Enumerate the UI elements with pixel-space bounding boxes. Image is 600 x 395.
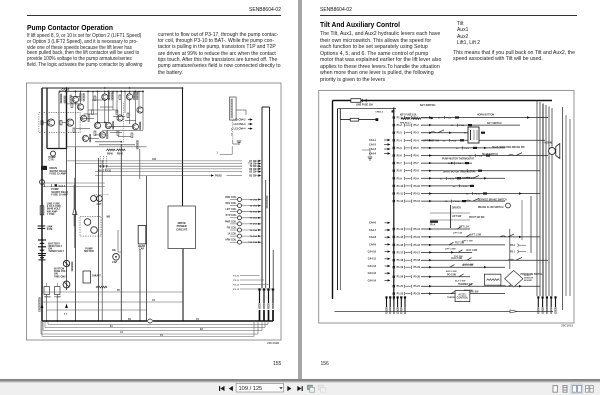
- svg-text:P1-11: P1-11: [397, 193, 404, 196]
- svg-text:LIFT COIL: LIFT COIL: [225, 209, 237, 211]
- svg-text:OIL: OIL: [112, 249, 117, 252]
- svg-text:LIFT LS4: LIFT LS4: [453, 232, 463, 235]
- svg-text:T3 CN4: T3 CN4: [249, 198, 257, 201]
- svg-text:K7 CN4: K7 CN4: [249, 160, 258, 163]
- svg-text:BOARD: BOARD: [524, 279, 532, 282]
- svg-text:P5-8: P5-8: [414, 170, 420, 173]
- svg-text:P5-2: P5-2: [414, 124, 420, 127]
- svg-text:T9 CN4: T9 CN4: [250, 165, 259, 168]
- svg-text:P5-4: P5-4: [460, 124, 465, 127]
- svg-text:T7 CN4: T7 CN4: [249, 223, 257, 226]
- svg-text:P5-22: P5-22: [414, 293, 421, 296]
- svg-text:T16 CN4: T16 CN4: [248, 163, 258, 166]
- svg-text:P1-21: P1-21: [397, 285, 404, 288]
- svg-text:PWR COIL: PWR COIL: [225, 221, 237, 223]
- svg-text:L13 CN4-4: L13 CN4-4: [234, 128, 247, 131]
- svg-text:P1-20: P1-20: [397, 276, 404, 279]
- svg-text:SEAT OPERATED BRAKE SW: SEAT OPERATED BRAKE SW: [492, 146, 525, 149]
- svg-text:P5-13: P5-13: [475, 194, 482, 196]
- svg-text:CA4-6: CA4-6: [369, 222, 377, 225]
- svg-text:P1-3: P1-3: [397, 132, 403, 135]
- svg-text:TIME ONLY: TIME ONLY: [54, 275, 67, 278]
- svg-text:P1-16: P1-16: [397, 244, 404, 247]
- svg-text:P1-8: P1-8: [397, 170, 403, 173]
- svg-text:P1-6: P1-6: [397, 155, 403, 158]
- svg-text:L13 CN4-3: L13 CN4-3: [234, 123, 247, 126]
- svg-text:P5-14: P5-14: [414, 228, 421, 231]
- svg-text:P5-7: P5-7: [465, 148, 470, 150]
- svg-text:P5-A: P5-A: [430, 224, 436, 227]
- svg-text:P5-10: P5-10: [414, 185, 421, 188]
- svg-text:PUMP MOTOR THERMOSTAT: PUMP MOTOR THERMOSTAT: [442, 157, 475, 160]
- svg-text:ALX 3 SW: ALX 3 SW: [455, 279, 466, 282]
- svg-text:ACCEL: ACCEL: [458, 293, 467, 296]
- svg-text:P1-18: P1-18: [397, 259, 404, 262]
- svg-text:1A COIL: 1A COIL: [227, 233, 237, 236]
- svg-text:B3 CN4: B3 CN4: [249, 174, 258, 177]
- svg-text:P1-2: P1-2: [397, 124, 403, 127]
- svg-text:LIFT LIMIT SW: LIFT LIMIT SW: [423, 141, 440, 143]
- svg-text:SERVICE BRAKE SWITCH: SERVICE BRAKE SWITCH: [478, 198, 507, 201]
- svg-text:THERMO SW: THERMO SW: [458, 284, 473, 286]
- svg-text:P1-12: P1-12: [397, 200, 404, 203]
- svg-text:CIRCUIT: CIRCUIT: [176, 227, 187, 231]
- svg-text:P1-9: P1-9: [397, 177, 403, 180]
- svg-text:20C1013: 20C1013: [561, 323, 573, 327]
- svg-text:TIANDI VOLT: TIANDI VOLT: [48, 249, 64, 253]
- svg-text:P5-18: P5-18: [414, 259, 421, 262]
- svg-text:HORN: HORN: [44, 297, 51, 299]
- svg-text:REV COIL: REV COIL: [226, 203, 238, 205]
- svg-text:DRIVE MOTOR THERMOSTAT: DRIVE MOTOR THERMOSTAT: [443, 171, 476, 174]
- svg-text:P1-7: P1-7: [397, 162, 403, 165]
- svg-text:T6 CN4: T6 CN4: [249, 217, 257, 220]
- svg-text:KEY SWITCH: KEY SWITCH: [420, 104, 435, 107]
- svg-text:FW COIL: FW COIL: [227, 227, 237, 229]
- svg-text:P3-10: P3-10: [233, 275, 240, 277]
- svg-text:P5-16: P5-16: [414, 244, 421, 247]
- svg-text:NB: NB: [107, 216, 111, 219]
- svg-text:T4 CN4: T4 CN4: [249, 204, 257, 207]
- svg-text:P5-1: P5-1: [414, 117, 420, 120]
- svg-text:P5-4: P5-4: [414, 139, 420, 142]
- svg-text:CA4-9: CA4-9: [369, 243, 377, 246]
- svg-text:P5-3: P5-3: [447, 118, 452, 120]
- svg-text:L13 CN4-2: L13 CN4-2: [234, 119, 247, 122]
- svg-text:CA4-2: CA4-2: [369, 143, 377, 146]
- svg-text:P5/2G: P5/2G: [215, 175, 222, 178]
- svg-text:P5-6: P5-6: [414, 155, 420, 158]
- svg-text:PG4 SW: PG4 SW: [447, 273, 457, 276]
- svg-text:P5-3: P5-3: [414, 132, 420, 135]
- svg-text:T5 CN4: T5 CN4: [249, 211, 257, 214]
- svg-text:T10 CN4: T10 CN4: [248, 241, 258, 244]
- svg-text:1: 1: [217, 153, 219, 155]
- svg-text:FWD COIL: FWD COIL: [225, 197, 237, 199]
- svg-text:LIFT LS4: LIFT LS4: [459, 226, 469, 229]
- svg-text:AUX 1 SW: AUX 1 SW: [466, 249, 478, 252]
- svg-text:DRIVER: DRIVER: [452, 208, 461, 210]
- svg-text:P5-11: P5-11: [414, 193, 421, 196]
- svg-text:CA4-1: CA4-1: [369, 139, 377, 142]
- svg-text:HRN COIL: HRN COIL: [225, 240, 237, 242]
- svg-text:CAP: CAP: [112, 261, 118, 264]
- svg-text:R040: R040: [107, 153, 113, 156]
- svg-text:LINE FUSE 15A: LINE FUSE 15A: [356, 103, 373, 106]
- svg-text:FUSE 15 AMP: FUSE 15 AMP: [50, 171, 67, 175]
- svg-text:P1-1: P1-1: [397, 117, 403, 120]
- svg-text:B2 CN4: B2 CN4: [249, 168, 258, 171]
- svg-text:LIFT 1 SW: LIFT 1 SW: [470, 235, 482, 237]
- svg-text:CONTROL: CONTROL: [457, 297, 469, 299]
- svg-text:P3-12: P3-12: [233, 284, 240, 286]
- svg-text:PUMP: PUMP: [55, 297, 62, 299]
- svg-text:P5-12: P5-12: [462, 186, 469, 188]
- svg-text:P3-13: P3-13: [233, 289, 240, 291]
- svg-text:P1-5: P1-5: [397, 147, 403, 150]
- svg-text:AUX 2 SW: AUX 2 SW: [446, 270, 458, 273]
- svg-text:P5-21: P5-21: [414, 285, 421, 288]
- svg-text:P1-19: P1-19: [397, 266, 404, 269]
- svg-text:P5-15: P5-15: [414, 236, 421, 239]
- svg-text:MOTOR: MOTOR: [84, 249, 94, 253]
- svg-text:BRK SW: BRK SW: [469, 291, 479, 293]
- svg-text:SEAT SWITCH: SEAT SWITCH: [482, 153, 498, 156]
- svg-text:P1-4: P1-4: [397, 139, 403, 142]
- svg-text:T8 CN4: T8 CN4: [249, 229, 257, 232]
- svg-text:P1-14: P1-14: [397, 228, 404, 231]
- svg-text:HORN BUTTON: HORN BUTTON: [477, 114, 494, 116]
- svg-text:SHUNT: SHUNT: [92, 274, 101, 278]
- svg-text:CA1-4: CA1-4: [59, 185, 66, 188]
- svg-text:CPA1-3: CPA1-3: [375, 111, 383, 114]
- svg-text:P5-14: P5-14: [454, 200, 461, 203]
- svg-text:R040: R040: [117, 153, 123, 156]
- svg-text:T9 CN4: T9 CN4: [249, 235, 257, 238]
- svg-text:CA4-10: CA4-10: [368, 251, 377, 254]
- svg-text:P5-5: P5-5: [414, 147, 420, 150]
- svg-text:CA4-11: CA4-11: [368, 258, 377, 261]
- svg-text:KEY SWITCH: KEY SWITCH: [487, 123, 502, 125]
- svg-text:LIFT 2 SW: LIFT 2 SW: [445, 249, 457, 251]
- svg-text:BYP COIL: BYP COIL: [226, 215, 237, 217]
- svg-text:109 / 125: 109 / 125: [239, 386, 263, 392]
- svg-text:AUX 2 SW: AUX 2 SW: [451, 257, 463, 260]
- svg-text:B3 CN4: B3 CN4: [249, 171, 258, 174]
- svg-text:LIFT SW: LIFT SW: [452, 216, 462, 218]
- svg-text:P5-6: P5-6: [452, 140, 457, 142]
- svg-text:P5-17: P5-17: [414, 251, 421, 254]
- svg-text:20C1028: 20C1028: [267, 341, 279, 345]
- svg-text:CTR: CTR: [48, 157, 53, 161]
- svg-text:P5-19: P5-19: [414, 266, 421, 269]
- svg-text:P3-11: P3-11: [233, 280, 239, 282]
- svg-text:P1-22: P1-22: [397, 293, 404, 296]
- svg-text:P5-9: P5-9: [457, 163, 462, 165]
- svg-text:BRAKE FLUID SWITCH: BRAKE FLUID SWITCH: [478, 206, 504, 209]
- svg-text:P5-20: P5-20: [414, 276, 421, 279]
- svg-text:CA4-7: CA4-7: [369, 229, 377, 232]
- svg-text:CA4-12: CA4-12: [368, 265, 377, 268]
- svg-text:PARK BRAKE SW: PARK BRAKE SW: [455, 177, 475, 180]
- svg-text:CAP: CAP: [139, 247, 145, 251]
- svg-text:P5-7: P5-7: [414, 162, 420, 165]
- svg-text:TILT SW: TILT SW: [455, 243, 465, 245]
- svg-text:P1-15: P1-15: [397, 236, 404, 239]
- svg-text:CA4-13: CA4-13: [368, 272, 377, 275]
- svg-text:P1-10: P1-10: [397, 185, 404, 188]
- svg-text:FUSE 15 AMP: FUSE 15 AMP: [51, 192, 68, 196]
- svg-text:0479: 0479: [47, 227, 53, 231]
- svg-text:T TON: T TON: [47, 212, 55, 216]
- svg-text:4 d: 4 d: [64, 313, 68, 316]
- svg-text:CA4-14: CA4-14: [368, 279, 377, 282]
- svg-text:POS/T GR KM: POS/T GR KM: [469, 217, 484, 219]
- svg-text:HORN: HORN: [544, 142, 551, 145]
- svg-text:P3-0: P3-0: [510, 245, 516, 247]
- svg-text:CA4-8: CA4-8: [369, 236, 377, 239]
- svg-text:P5-9: P5-9: [414, 177, 420, 180]
- svg-text:ALX 3 SW: ALX 3 SW: [462, 264, 474, 267]
- svg-text:P1-17: P1-17: [397, 251, 404, 254]
- svg-text:2AP: 2AP: [97, 203, 102, 206]
- svg-text:P5-12: P5-12: [414, 200, 421, 203]
- svg-text:P3-1: P3-1: [510, 252, 516, 254]
